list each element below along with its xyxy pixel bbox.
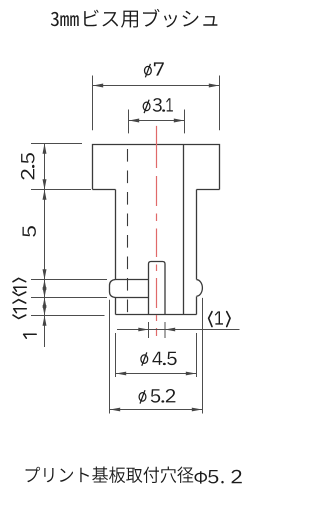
hole edge right (section, phi3.1) [183,145,185,315]
lower left edge [115,298,117,315]
snap ring top edge line [116,279,149,281]
arrow pair at body bottom [43,305,47,315]
body right edge (phi4.5) [196,190,198,280]
center line (red chain line) [156,126,158,336]
phi7 label digit 7 [154,62,164,75]
arrow up at flange top [43,144,47,154]
flange outline (phi7 top hat) [93,145,220,190]
phi4.5 extension line right [196,333,198,377]
phi7 label symbol [145,64,152,77]
phi5.2 label digits 5.2 [151,389,176,403]
left chain extension line at ring bottom [31,297,107,299]
body left edge (phi4.5) [115,190,117,280]
phi5.2 extension line right [202,298,204,414]
slot width extension tick right [164,322,166,338]
phi4.5 dimension line [116,373,197,375]
phi7 dimension line [93,85,220,87]
phi3.1 extension line right [184,110,186,134]
phi5.2 label symbol [139,390,146,403]
snap ring bulge right (phi5.2) [197,280,203,296]
dimension text 1 (rotated) [24,334,37,338]
body bottom edge [116,314,197,316]
dimension text (1)(1) (rotated) [13,315,26,318]
hole hidden edge left (dashed, phi3.1) [127,149,129,313]
phi5.2 dimension line [110,409,203,411]
phi4.5 label symbol [141,352,148,365]
slot outline (1mm slit) [149,262,166,315]
left chain extension line at ring top [31,279,107,281]
flange bottom right step [197,189,220,191]
arrow pair at flange bottom [43,179,47,189]
left chain extension line at flange top [31,143,82,145]
left chain extension line at body bottom [31,315,105,317]
arrow pair at ring top [43,269,47,279]
dimension text 2.5 (rotated) [21,169,34,180]
note text プリント基板取付穴径 [26,467,194,484]
title text 3mm [51,12,79,26]
lower right edge [196,297,198,315]
snap ring bulge left (phi5.2) [110,280,116,298]
phi4.5 label digits 4.5 [152,352,176,365]
phi7 extension line right [219,76,221,131]
left chain extension line at flange bottom [31,189,91,191]
phi7 extension line left [92,76,94,131]
left chain dimension line [44,144,46,348]
phi3.1 dimension line [129,120,185,122]
title text ビス用ブッシュ [84,9,217,28]
slot width label (1) [209,312,212,327]
phi3.1 extension line left [128,110,130,134]
note text Φ5.2 [195,470,242,484]
phi3.1 label digits 3.1 [153,98,173,112]
arrow pair at ring bottom [43,287,47,297]
snap ring bottom edge line [116,297,149,299]
dimension text 5 (rotated) [23,226,36,237]
phi4.5 extension line left [115,333,117,377]
slot width dimension line [117,329,240,331]
slot width extension tick left [148,322,150,338]
phi5.2 extension line left [109,300,111,414]
phi3.1 label symbol [143,100,150,113]
flange bottom left step [93,189,116,191]
